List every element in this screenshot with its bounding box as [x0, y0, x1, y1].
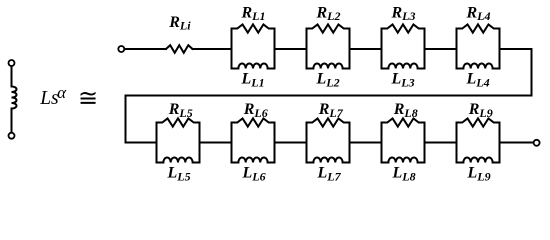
resistor R_L3: [382, 24, 425, 32]
resistor R_L6: [232, 118, 275, 126]
wire: [350, 142, 382, 144]
inductor Ls^alpha (symbol): [12, 87, 17, 109]
wire (return horizontal): [126, 95, 532, 97]
node: right junction of block 1: [274, 29, 276, 69]
resistor R_Li: [166, 45, 193, 53]
inductor L_L7: [307, 157, 350, 162]
inductor L_L2: [307, 63, 350, 68]
node: right junction of block 7: [349, 123, 351, 163]
svg-text:RL7: RL7: [318, 101, 344, 120]
inductor L_L6: [232, 157, 275, 162]
wire: [500, 142, 534, 144]
wire: [11, 109, 13, 133]
resistor R_L7: [307, 118, 350, 126]
node: left junction of block 2: [306, 29, 308, 69]
svg-text:LL6: LL6: [242, 165, 266, 184]
svg-text:RL8: RL8: [393, 101, 418, 120]
svg-text:LL3: LL3: [391, 71, 415, 90]
wire: [275, 142, 307, 144]
output terminal: [534, 140, 540, 146]
wire (top row out to right edge): [500, 48, 532, 50]
terminal T1 (top of Ls symbol): [9, 60, 15, 66]
svg-text:LL4: LL4: [466, 71, 490, 90]
resistor R_L5: [157, 118, 200, 126]
svg-text:LL1: LL1: [241, 71, 265, 90]
inductor L_L3: [382, 63, 425, 68]
resistor R_L1: [232, 24, 275, 32]
node: right junction of block 9: [499, 123, 501, 163]
svg-text:RLi: RLi: [168, 14, 191, 33]
svg-text:RL6: RL6: [243, 101, 268, 120]
wire: [126, 142, 157, 144]
wire: [125, 48, 167, 50]
wire: [11, 66, 13, 86]
wire: [425, 48, 457, 50]
terminal T2 (bottom of Ls symbol): [9, 133, 15, 139]
node: left junction of block 6: [231, 123, 233, 163]
svg-text:RL3: RL3: [391, 4, 416, 23]
node: left junction of block 7: [306, 123, 308, 163]
node: left junction of block 8: [381, 123, 383, 163]
wire (right vertical): [531, 49, 533, 96]
node: left junction of block 3: [381, 29, 383, 69]
svg-text:LL7: LL7: [317, 165, 342, 184]
resistor R_L9: [457, 118, 500, 126]
svg-text:LL5: LL5: [167, 165, 191, 184]
node: left junction of block 4: [456, 29, 458, 69]
svg-text:LL8: LL8: [392, 165, 416, 184]
svg-text:RL9: RL9: [468, 101, 493, 120]
resistor R_L8: [382, 118, 425, 126]
wire: [200, 142, 232, 144]
node: left junction of block 9: [456, 123, 458, 163]
svg-text:Lsα: Lsα: [39, 83, 67, 109]
inductor L_L5: [157, 158, 200, 163]
inductor L_L4: [457, 63, 500, 68]
node: right junction of block 6: [274, 123, 276, 163]
wire: [193, 48, 232, 50]
svg-text:LL2: LL2: [316, 71, 340, 90]
svg-text:RL1: RL1: [241, 4, 266, 23]
node: right junction of block 2: [349, 29, 351, 69]
resistor R_L2: [307, 24, 350, 32]
inductor L_L8: [382, 157, 425, 162]
svg-text:LL9: LL9: [467, 165, 491, 184]
input terminal: [118, 46, 124, 52]
svg-text:RL5: RL5: [168, 101, 193, 120]
inductor L_L9: [457, 157, 500, 162]
wire (left vertical down to bottom row): [125, 96, 127, 143]
wire: [275, 48, 307, 50]
node: right junction of block 8: [424, 123, 426, 163]
node: right junction of block 5: [199, 123, 201, 163]
inductor L_L1: [232, 63, 275, 68]
node: left junction of block 5: [156, 123, 158, 163]
node: right junction of block 3: [424, 29, 426, 69]
resistor R_L4: [457, 24, 500, 32]
svg-text:RL4: RL4: [466, 4, 491, 23]
node: left junction of block 1: [231, 29, 233, 69]
wire: [350, 48, 382, 50]
svg-text:≅: ≅: [78, 86, 98, 112]
wire: [425, 142, 457, 144]
node: right junction of block 4: [499, 29, 501, 69]
svg-text:RL2: RL2: [316, 4, 341, 23]
